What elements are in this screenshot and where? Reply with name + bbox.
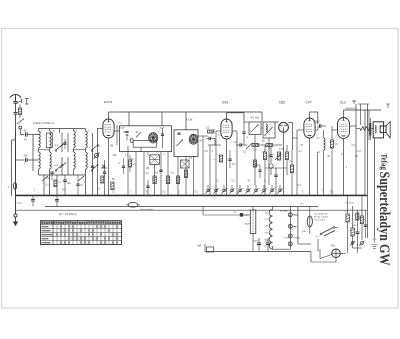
core box L3 [46,133,52,148]
wire left rail 2 [12,140,16,196]
svg-text:SB 240V: SB 240V [346,203,355,205]
capacitor C21 (1uF) [265,238,271,252]
resistor R3 [111,179,115,190]
wire V1 aux [114,125,119,145]
terminal K1 [19,126,22,133]
wire V5 top [344,107,382,118]
electrolytic block B5 [244,210,256,234]
wire inter 2 [208,139,221,197]
labels voltages [284,214,301,240]
wire PSU mid vertical [298,207,311,252]
resistor R23 [54,180,62,187]
capacitor C11 [146,180,149,196]
wire V2 top [227,113,245,122]
wire coil feed [33,135,39,172]
coil L6 (RF, lower) [50,150,52,175]
label 0,1 b [206,128,210,130]
wire coil top bus [39,129,86,134]
title Tefag (rotated) [380,154,390,171]
coil L10 (IF1 secondary) [150,155,160,165]
svg-text:µF ≈ 25 Meorg: µF ≈ 25 Meorg [59,212,77,216]
capacitor C2 [14,113,18,132]
svg-text:Eu 7 (±70): Eu 7 (±70) [315,220,325,222]
antenna A1 [10,95,21,102]
svg-text:1M: 1M [269,148,272,150]
label 220V [280,211,288,213]
variable capacitor CV1 [94,153,100,159]
contact SW3 (bus row) [221,185,226,194]
wire PSU top [203,207,248,216]
label ECH1 [104,100,113,104]
capacitor C6 [91,166,94,167]
terminal mark bottom right [373,239,377,243]
resistor R10 [266,144,282,147]
capacitor C4 (200 cm) [16,155,34,163]
capacitor C29 (EK1 cathode) [228,150,236,168]
capacitor C1 (antenna series) [13,102,17,113]
wire B2 drops [178,156,194,196]
wire bank drop mid [44,175,57,196]
circle D1 [269,164,273,175]
labels PSU right [345,211,362,247]
resistor R12 [285,145,288,175]
svg-text:4,5 Volt: 4,5 Volt [251,116,260,120]
wire V4 top [310,112,318,125]
svg-text:2×Niva: 2×Niva [284,237,291,240]
label B1 topleft [119,128,125,130]
trimmer T6 [177,140,184,147]
capacitor C7 [101,165,107,168]
capacitor C28 (under B1) [118,158,125,174]
oscillator coil box B4 [263,122,275,138]
wire B1 feed b [161,112,163,126]
wire V5 grid [332,129,338,131]
wire AVC drop2 [264,168,266,196]
output transformer TR1 winding [369,118,371,140]
resistor R1 (input) [19,105,22,119]
wire coil drop L2 [49,175,51,196]
cap marks B1 left [125,131,128,140]
resistor R5 [166,176,169,184]
resistor R15 (PSU) [346,196,349,253]
capacitor C13 [206,137,215,140]
coil L7 (RF, lower) [74,150,76,175]
wire PSU right bottom [353,248,363,253]
tube V5 (CL2 output) [338,118,350,139]
svg-text:CL2: CL2 [340,101,346,105]
resistor R14 (tone) [356,127,373,131]
switch S1 (antenna) [16,99,29,105]
IF transformer block B1 [120,126,172,152]
wire B1 drops [128,152,168,196]
svg-text:Superteładyn GW: Superteładyn GW [376,172,392,266]
trimmer T8 [60,142,66,148]
coil L2 (RF, upper) [50,129,52,151]
wire osc links [244,122,269,145]
wire inter 1 [198,136,208,196]
label EK1 [223,101,229,105]
capacitor C16 [274,175,278,196]
label PSU top [300,203,354,239]
svg-text:0,5µF: 0,5µF [17,202,23,204]
svg-text:BCG/pw: BCG/pw [280,211,288,213]
voltage selector contacts [288,207,292,250]
value table (Röhrenbestückung) [41,221,122,245]
capacitor C25 [364,210,367,238]
contact SW5 (bus row) [237,185,242,194]
bus PSU bottom [205,244,311,252]
text PSU notes [315,214,329,222]
label 22 [123,132,139,134]
svg-text:100: 100 [113,154,118,157]
capacitor C30 [46,172,54,180]
resistor R16 (PSU) [351,206,354,248]
wire B1 feed a [128,112,130,126]
inner box B1a [133,141,156,148]
svg-text:5000: 5000 [315,122,321,124]
svg-text:EK1: EK1 [223,101,229,105]
wire V4 bottom [309,138,311,196]
switch S3 (mains) [320,227,338,236]
wire V3 left [262,112,279,122]
trimmer T2 [42,176,48,181]
resistor R6 [176,176,179,184]
resistor R2 [97,176,104,191]
label 0,1 a [146,173,150,175]
hatched coil L12 [181,160,190,168]
capacitor C8 [103,160,106,196]
bus (lower line) [16,209,368,211]
label CL2 [340,101,346,105]
capacitor C5 (padder) [63,175,71,196]
contact SW8 (bus row) [261,185,266,194]
label 50pF [243,141,265,154]
wire right rails [361,104,370,196]
coil L1 (RF, upper) [39,129,41,151]
wire coil link bottom [39,174,86,176]
svg-text:100: 100 [67,182,72,185]
wire B2 feed [185,112,187,130]
contact PSU a [350,241,355,246]
trimmer T7 [246,143,253,149]
switch S2a (wave change) [55,144,63,151]
svg-text:0,1µF: 0,1µF [119,128,125,130]
capacitor C23 [64,139,67,149]
svg-text:Ba 120/41/40: Ba 120/41/40 [315,214,329,216]
wire osc drop b [268,145,270,185]
trimmer T9 [60,163,66,169]
label 4,5 Volt [251,116,260,120]
switch S2c [91,144,98,151]
svg-text:CF7: CF7 [306,101,312,105]
potentiometer P1 [275,152,281,160]
speaker LS1 [373,122,390,138]
wire lamp loop [311,239,346,262]
contact SW4 (bus row) [229,185,234,194]
wire V5 plate right [350,104,357,196]
resistor R21 (under B1) [128,155,136,172]
mains transformer TR2 primary [269,207,290,250]
capacitor C3 (40 cm) [20,130,33,137]
trimmer T1 [17,119,24,125]
labels TR2 taps [265,213,270,248]
capacitor C17 [315,122,327,131]
wire V1 plate to top rail [109,112,114,119]
barretter U1 (Urdox) [307,207,312,235]
wire V5 bottom [343,139,345,197]
wire PSU drop [252,207,254,252]
label Netzschalter [141,209,154,212]
wire V3 bottom [283,132,285,195]
svg-text:4,5 W: 4,5 W [186,119,193,122]
lamp EV1 (dial lamp) [331,246,340,258]
box Erde [198,246,214,253]
contact SW10 (bus row) [277,185,282,194]
resistor R8 [208,130,215,133]
capacitor C10 [159,170,162,171]
wire gang rail B [97,128,99,196]
coil L4 (RF, upper) [86,129,88,151]
label 4,5W [186,119,193,122]
wire V1 cathode drop [108,138,110,196]
tube V1 (ECH mixer) [103,119,114,138]
wire coil drop L4 [85,175,87,196]
label uF note [59,212,77,216]
wire heater drop a [318,152,321,196]
wire V1 grid left [98,128,103,130]
svg-text:PV220: PV220 [294,238,301,240]
contact PSU b [360,241,365,246]
capacitor C26 [242,122,245,145]
resistor R18 (PSU) [356,213,363,220]
capacitor C22 [356,210,360,248]
wire osc drop a [254,145,256,185]
contact SW1 (bus row) [205,185,210,194]
svg-text:2M: 2M [110,146,113,148]
coil L13 (choke) [324,130,326,196]
resistor R17 [360,196,363,240]
title Superteladyn GW (rotated) [376,172,392,266]
svg-text:5000: 5000 [292,138,298,140]
label 2M [335,144,339,146]
resistor R4 [153,176,156,184]
wire antenna rail [15,131,17,196]
svg-text:2×8µF: 2×8µF [244,223,251,226]
svg-text:50µF: 50µF [253,241,259,243]
wire schematic right border [367,104,369,238]
svg-text:HFA 452 B: HFA 452 B [346,107,357,110]
tube V2 (EK1) [221,119,232,139]
capacitor C20 (50uF) [253,238,261,252]
svg-text:4µF: 4µF [198,246,203,248]
terminal fuse F1 [8,183,17,189]
wire coil mid link [39,149,86,151]
coil L9 (IF1 primary) [149,133,158,143]
svg-text:Drehko 3×500 cm: Drehko 3×500 cm [33,121,55,125]
switch S2b [55,164,63,171]
svg-text:0,35: 0,35 [279,149,284,151]
capacitor C24 [76,175,79,196]
wire AVC bottom [265,168,287,175]
resistor R7 [184,170,187,178]
resistor R20 [290,150,293,196]
capacitor C12 [178,133,181,134]
svg-text:CB2: CB2 [279,101,285,105]
tube V4 (CF7) [304,118,315,138]
resistor R11 [263,145,266,168]
resistor R13 [330,126,333,196]
svg-text:Netzschalter: Netzschalter [141,209,154,212]
coil L3 (RF, upper) [74,129,76,151]
label B1 topright [160,128,166,130]
tube V3 (CB2 duodiode) [279,122,289,132]
wire gang rail A [92,133,94,196]
capacitor C18 (30uF) [17,196,35,206]
resistor R19 [253,160,256,172]
coil L8 (RF, lower) [86,150,88,175]
wire top rail (AVC line) [113,111,262,113]
contact SW6 (bus row) [245,185,250,194]
contact SW9 (bus row) [269,185,274,194]
coil L5 (RF, lower) [39,150,41,175]
IF transformer block B2 [174,130,198,157]
bus (chassis, heavy) [16,194,368,196]
bus (B+ line) [45,206,318,208]
wire bank extra 2 [62,157,68,175]
terminal TA (Tonabnehmer) [352,101,390,108]
label 100 [113,154,118,157]
svg-text:Tefag: Tefag [380,154,390,171]
oscillator coil box B3 [249,122,261,135]
svg-text:EV1: EV1 [331,246,336,248]
trimmer oval T5 (inside B1) [130,138,141,152]
capacitor C14 [236,143,247,146]
ground symbol E1 (Erde) [13,196,18,226]
wire V2 cathode [226,139,228,196]
wire speaker rail [374,138,376,238]
svg-text:ECH1: ECH1 [104,100,113,104]
contact SW2 (bus row) [213,185,218,194]
resistor R22 (EK1 cathode) [214,155,223,162]
label Drehko [33,121,55,125]
label CF7 [306,101,312,105]
svg-text:2M: 2M [146,168,149,170]
trimmer T3 [78,176,84,181]
capacitor C15 [269,148,272,163]
box Lsp [233,212,250,217]
svg-text:Bu 50 (–40%): Bu 50 (–40%) [315,217,329,219]
fuse F2 (mains) [126,202,140,207]
micro value labels [24,123,361,194]
switch S2d [91,164,98,171]
coil L11 (IF2) [189,134,198,144]
wire bank extra 1 [62,133,68,152]
svg-text:200: 200 [24,155,29,158]
wire V4 left [297,130,304,196]
wire V2 left pins [216,131,221,196]
label CB2 [279,101,285,105]
wire V2 right pins [233,131,237,196]
capacitor C19 [55,196,59,206]
contact SW7 (bus row) [253,185,258,194]
ground symbol E2 [372,245,377,249]
capacitor C27 [255,165,262,178]
trimmer T4 (inside B1) [128,132,141,151]
capacitor C9 [161,128,164,148]
wire V4 right pin [315,129,318,131]
resistor R9 [252,144,266,147]
svg-text:M: M [53,131,55,133]
wire V3 right [288,123,292,150]
